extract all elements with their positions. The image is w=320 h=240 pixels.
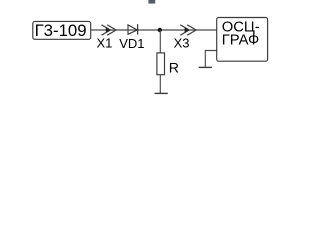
svg-text:ГРАФ: ГРАФ: [222, 33, 260, 49]
wire resistor to ground: [159, 75, 161, 94]
connector X1 arrow fill: [106, 27, 111, 32]
wire oscilloscope to ground: [205, 51, 216, 68]
diode VD1: [128, 25, 137, 34]
connector X1 chevron 2: [107, 25, 116, 35]
svg-text:X3: X3: [174, 35, 190, 50]
connector X1 chevron 1: [102, 25, 111, 35]
wire node to resistor: [159, 30, 161, 53]
gray marker square: [148, 0, 155, 4]
generator box G3-109: [33, 21, 91, 39]
node junction dot: [158, 28, 162, 32]
ground under resistor: [155, 92, 168, 94]
resistor R body: [157, 53, 165, 75]
connector X3 chevron 1: [180, 25, 189, 35]
connector X3 arrow fill: [185, 27, 190, 32]
ground at oscilloscope: [199, 66, 212, 68]
svg-text:VD1: VD1: [119, 36, 144, 51]
oscilloscope box: [217, 18, 268, 62]
svg-text:R: R: [169, 61, 179, 77]
connector X3 chevron 2: [187, 25, 196, 35]
diode VD1 cathode bar: [137, 24, 139, 34]
wire main horizontal: [91, 29, 217, 31]
svg-text:Г3-109: Г3-109: [35, 21, 87, 40]
svg-text:X1: X1: [97, 36, 113, 51]
